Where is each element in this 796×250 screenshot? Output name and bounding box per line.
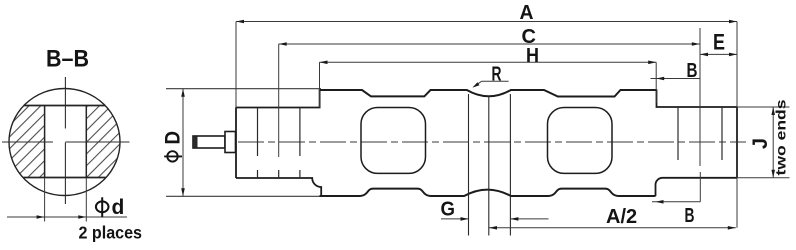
phi-d right extension line — [85, 178, 87, 222]
right mounting hole left edge — [677, 107, 679, 160]
dimension B top arrow — [656, 77, 664, 81]
beam top profile — [320, 90, 657, 97]
dimension J line — [772, 107, 774, 178]
dimension C arrows — [279, 42, 287, 46]
extension line H left — [319, 62, 321, 107]
hatched section area — [6, 106, 124, 178]
svg-text:2 places: 2 places — [79, 222, 143, 242]
extension line A left (block left face up) — [235, 22, 237, 108]
hole slot left edge — [44, 106, 46, 178]
extension line H/B right — [655, 62, 657, 103]
dimension C line — [279, 43, 700, 45]
horizontal centerline right segment — [65, 141, 129, 143]
left mounting hole left edge — [257, 108, 259, 157]
vertical centerline upper segment — [64, 77, 66, 129]
svg-text:A/2: A/2 — [606, 206, 637, 228]
left mounting hole lower ticks — [258, 170, 300, 178]
dimension B top line — [651, 78, 701, 80]
svg-text:R: R — [492, 64, 502, 86]
phi-D top extension line — [166, 88, 321, 90]
horizontal centerline left segment — [2, 141, 53, 143]
hole slot right edge — [85, 106, 87, 178]
phi-d left extension line — [44, 178, 46, 222]
cable connector barrel — [193, 136, 225, 148]
dimension A arrows — [236, 20, 244, 24]
label phi d — [96, 196, 124, 219]
svg-text:J: J — [749, 138, 772, 149]
svg-text:B–B: B–B — [46, 46, 89, 73]
main horizontal centerline — [197, 141, 746, 143]
dimension J top extension — [737, 106, 790, 108]
bottom flat chord — [24, 177, 106, 179]
center gauge line left — [468, 94, 470, 236]
left flexure hole (squircle) — [361, 108, 426, 174]
dimension B bottom line — [652, 201, 700, 203]
dimension G left line — [441, 218, 469, 220]
phi-D dimension line — [182, 89, 184, 197]
svg-text:A: A — [520, 2, 534, 24]
svg-text:G: G — [441, 198, 456, 220]
dimension E line — [700, 53, 737, 55]
svg-text:d: d — [112, 196, 125, 219]
left mounting hole right edge — [299, 108, 301, 157]
phi-d arrow at left extension — [37, 215, 45, 219]
dimension B bottom arrow — [656, 200, 664, 204]
dimension H line — [320, 61, 657, 63]
vertical centerline lower segment — [64, 143, 66, 205]
dimension J arrows — [771, 107, 775, 115]
phi-D top arrow — [181, 89, 185, 97]
center gauge line right — [509, 94, 511, 236]
cylinder cross-section circle — [9, 89, 120, 196]
right step bottom and flat — [656, 178, 738, 196]
cable connector collar — [225, 132, 236, 153]
extension line E right upper — [736, 28, 738, 54]
extension line right hole centerline — [699, 28, 701, 166]
right step top and flat — [657, 89, 738, 107]
vertical mid centerline — [488, 96, 490, 236]
phi-D bottom extension line — [166, 195, 321, 197]
dimension A/2 line — [489, 227, 736, 229]
top flat chord — [24, 105, 106, 107]
phi-D bottom arrow — [181, 188, 185, 196]
left block left face — [235, 108, 237, 179]
dimension J bottom extension — [737, 177, 790, 179]
phi-d arrow at right extension — [78, 215, 86, 219]
svg-text:D: D — [162, 131, 185, 145]
phi-d dimension line — [7, 216, 127, 218]
dimension G arrows — [461, 217, 469, 221]
dimension G right line — [510, 218, 548, 220]
extension line right hole centerline lower — [699, 172, 701, 202]
svg-text:H: H — [526, 45, 539, 67]
right flexure hole (squircle) — [548, 108, 613, 174]
label phi D rotated — [162, 131, 185, 162]
right end face — [736, 107, 738, 178]
left block bottom flat and fillet to beam — [236, 178, 321, 196]
svg-text:B: B — [687, 60, 698, 82]
right mounting hole right edge — [721, 107, 723, 160]
extension line right face vertical — [736, 22, 738, 228]
svg-text:B: B — [685, 205, 695, 227]
cable connector end cap — [193, 137, 198, 148]
svg-text:two ends: two ends — [773, 99, 789, 175]
dimension H arrows — [320, 61, 328, 65]
dimension A line — [236, 21, 737, 23]
dimension A/2 arrows — [489, 226, 497, 230]
dimension E arrows — [700, 53, 708, 57]
left block top flat and fillet to beam — [236, 89, 320, 107]
beam bottom profile — [320, 189, 656, 196]
label R with underline and leader — [473, 64, 509, 88]
extension line C left (hole centerline) — [278, 44, 280, 157]
svg-text:E: E — [713, 29, 725, 54]
